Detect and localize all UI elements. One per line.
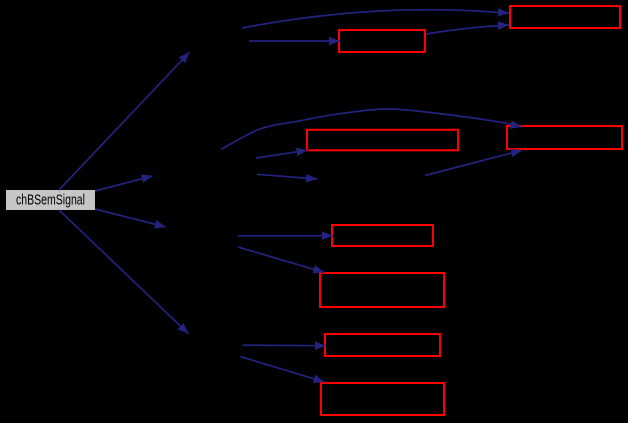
- edge node2->node2b: [257, 174, 317, 179]
- red box B7: [325, 334, 440, 356]
- edge node1->box2: [249, 40, 340, 42]
- edge chBSemSignal->node1: [59, 52, 190, 190]
- red box B8 (two-line): [321, 383, 444, 415]
- red box B6 (two-line): [320, 273, 444, 307]
- red box B1 (top right): [510, 6, 620, 28]
- red box B2: [339, 30, 425, 52]
- edge node4->box7: [243, 344, 326, 347]
- red box B5: [332, 225, 433, 246]
- edge node3->box5: [238, 235, 333, 237]
- red box B4 (right middle): [507, 126, 622, 149]
- edge chBSemSignal->node2: [95, 176, 153, 191]
- edge box2->box1: [426, 25, 509, 34]
- node chBSemSignal (gray): [6, 190, 95, 210]
- edge node3->box6: [238, 247, 324, 272]
- edge node2b->box4: [425, 150, 522, 175]
- edge node1->box1 (arc): [242, 10, 509, 28]
- edge node2->box3: [256, 150, 308, 158]
- svg-text:chBSemSignal: chBSemSignal: [16, 193, 85, 209]
- edge node4->box8: [240, 357, 324, 382]
- edge chBSemSignal->node4: [59, 210, 189, 334]
- edge node2->box4 (arc over box3): [221, 109, 522, 150]
- red box B3: [307, 130, 458, 151]
- edge chBSemSignal->node3: [95, 209, 166, 227]
